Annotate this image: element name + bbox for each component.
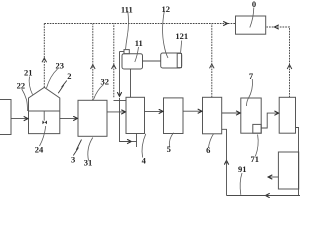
up arrow on riser D xyxy=(210,64,215,68)
wire: box11 to box12 xyxy=(143,60,161,62)
leader 21 xyxy=(29,77,32,95)
up arrow on riser C xyxy=(112,65,117,69)
svg-text:22: 22 xyxy=(17,80,26,90)
box 111 (small box on top of 11) xyxy=(124,50,129,54)
arrowhead into box0 left xyxy=(223,21,227,25)
svg-text:11: 11 xyxy=(135,38,143,48)
leader 23 xyxy=(47,69,58,88)
leader 121 xyxy=(181,41,182,53)
stirrer stem in tank 2 xyxy=(43,111,45,121)
leader 32 xyxy=(94,85,104,100)
zigzag leader 2 xyxy=(58,81,67,94)
leader 5 xyxy=(169,133,173,147)
leader 91 xyxy=(240,173,242,195)
leader 31 xyxy=(88,138,93,161)
leader 11 xyxy=(135,47,139,62)
dashed main header to box 0 xyxy=(44,23,235,25)
svg-text:4: 4 xyxy=(142,155,147,165)
wire 91: bottom return leftwards with arrow xyxy=(266,195,299,197)
svg-text:31: 31 xyxy=(84,158,93,168)
svg-text:0: 0 xyxy=(252,0,256,9)
wire: box5 to box6 xyxy=(183,110,202,112)
box 8 xyxy=(279,97,295,133)
arrowhead on box0 right feed, pointing left xyxy=(275,25,279,29)
wire: box6 to box7 xyxy=(222,112,240,114)
leader 4 xyxy=(142,134,146,158)
dashed riser from box8 to box 0 right side xyxy=(267,27,290,97)
svg-text:6: 6 xyxy=(206,145,210,155)
dashed riser from box3 (line 32) xyxy=(92,24,94,101)
box 0 xyxy=(236,16,266,34)
stirrer bowtie in tank2 xyxy=(42,121,47,125)
svg-text:5: 5 xyxy=(167,144,171,154)
wire: box4 to box5 xyxy=(145,110,163,112)
box 6 xyxy=(203,97,222,134)
svg-text:32: 32 xyxy=(101,76,110,86)
wire: box3 to box4 xyxy=(107,111,125,113)
box 1 xyxy=(0,100,11,135)
zigzag leader 3 xyxy=(73,140,81,156)
dashed vent from tank2 peak up xyxy=(43,24,45,88)
box 11 xyxy=(122,54,143,69)
box 7 xyxy=(241,98,261,133)
up arrow on vent A xyxy=(42,58,47,62)
up arrow on riser E xyxy=(287,65,292,69)
wire: box71 to box8 (step) xyxy=(261,113,278,128)
box 121 (inner box of 12) xyxy=(177,53,181,67)
leader 6 xyxy=(209,134,214,148)
box 71 (inner box of 7) xyxy=(253,124,261,133)
wire: continues down and right into bottom stub of box4 xyxy=(120,98,132,142)
wire: box1 to tank2 xyxy=(11,118,28,120)
leader 12 xyxy=(163,11,168,58)
leader 22 xyxy=(22,89,28,111)
wire: box11 down to box4 top xyxy=(130,69,132,97)
box 4 xyxy=(126,97,145,133)
leader 7 xyxy=(247,79,253,106)
svg-text:21: 21 xyxy=(24,68,33,78)
dashed riser from box6 xyxy=(211,24,213,98)
leader 24 xyxy=(40,126,46,146)
svg-text:71: 71 xyxy=(251,154,260,164)
leader 111 xyxy=(126,11,129,49)
box 12 xyxy=(161,53,182,68)
svg-text:12: 12 xyxy=(162,4,171,14)
up arrow on riser 32 xyxy=(91,65,96,69)
svg-text:3: 3 xyxy=(71,154,75,164)
leader 0 xyxy=(250,8,254,28)
wire: vertical from 111 down with arrow xyxy=(119,52,121,97)
wire: tank2 to box3 xyxy=(60,117,78,119)
svg-text:91: 91 xyxy=(238,164,247,174)
svg-text:111: 111 xyxy=(121,5,133,15)
svg-text:121: 121 xyxy=(175,31,188,41)
svg-text:2: 2 xyxy=(67,71,71,81)
wire: box8 right notch down (91 line start) xyxy=(296,128,301,196)
wire: inlet stub at top-left of box4 xyxy=(114,100,127,102)
dashed riser near box4 xyxy=(113,24,115,98)
tank 2 ceiling line xyxy=(29,110,60,112)
box 3 xyxy=(78,100,107,136)
tank 2 (hopper with roof) xyxy=(29,87,60,133)
wire: box9 outlet arrow to left xyxy=(268,176,278,178)
wire: stub below box4 xyxy=(136,134,138,148)
box 5 xyxy=(164,98,184,134)
svg-text:24: 24 xyxy=(35,144,44,154)
leader 71 xyxy=(255,135,258,157)
box 9 xyxy=(278,152,298,189)
svg-text:23: 23 xyxy=(56,61,65,71)
wire: box111 stub left xyxy=(120,51,125,53)
wire 91: up the left side with arrow xyxy=(226,161,228,196)
